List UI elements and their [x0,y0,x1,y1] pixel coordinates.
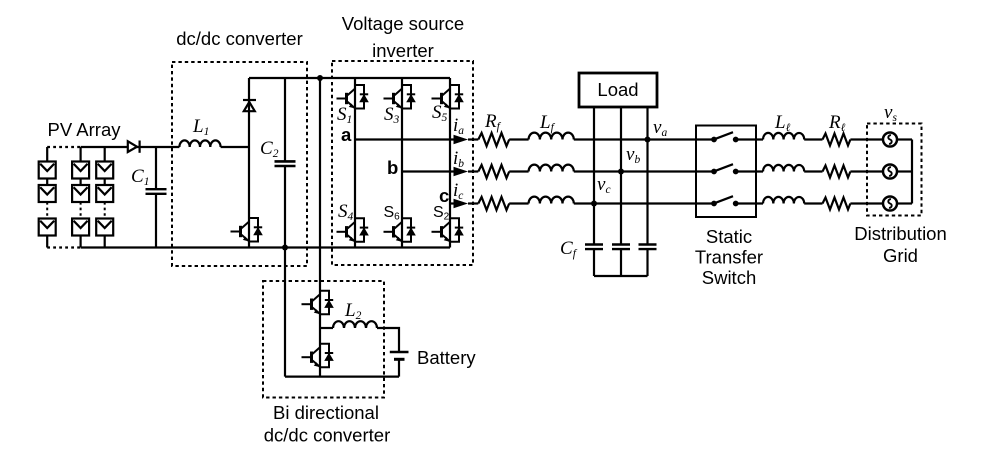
wire PV top bus dashed segment [47,146,80,148]
svg-text:dc/dc converter: dc/dc converter [264,425,390,446]
transistor S4 [337,218,369,242]
PV string column 1 [39,147,56,248]
wire inverter leg 3 [449,78,451,248]
node vc [591,201,597,207]
wire battery bottom return [285,376,399,378]
wire Lf to va node [574,138,714,140]
inductor Lf phase a [529,133,574,140]
current arrow ia [454,135,469,145]
wire load leg / Cf leg at vc [593,107,595,244]
wire diode to L1 [136,146,179,148]
resistor Rf phase c [478,197,509,210]
ac source phase b [883,165,897,179]
capacitor Cf phase c [585,245,603,277]
wire Cf common bottom [594,275,648,277]
svg-text:inverter: inverter [372,40,434,61]
node top bus junction [317,75,323,81]
battery B1 [390,352,409,377]
wire Rl to source c [850,202,883,204]
svg-text:Voltage source: Voltage source [342,13,464,34]
wire Rl to source b [850,170,883,172]
wire bottom dc bus [81,246,450,248]
capacitor Cf phase a [639,245,657,277]
inductor L1 [179,140,220,147]
inductor Lf phase b [529,165,574,172]
wire Ll to Rl phase b [804,170,822,172]
svg-text:Static: Static [706,226,752,247]
wire phase b to Rf [468,170,478,172]
transistor S2 [432,218,464,242]
inductor Ll phase a [763,133,804,140]
wire Rf to Lf phase c [509,202,528,204]
Static Transfer Switch box [696,126,756,218]
current arrow ic [454,199,469,209]
PV string column 2 [72,147,89,248]
wire midpoint to L2 [320,327,333,329]
inductor L2 [333,321,377,328]
dc/dc converter dashed box [172,62,307,266]
wire load leg / Cf leg at vb [620,107,622,244]
resistor Rl phase b [823,166,851,178]
svg-text:dc/dc converter: dc/dc converter [176,28,302,49]
wire Rf to Lf phase a [509,138,528,140]
wire Lf to vb node [574,170,714,172]
PV string column 3 [96,147,113,248]
capacitor C1 branch bottom wire [155,194,157,248]
svg-text:Load: Load [597,79,638,100]
wire battery leg from top bus junction [319,78,321,377]
inductor Ll phase c [763,197,804,204]
transistor Q1 (dc/dc IGBT) [231,218,263,242]
node bottom bus junction [282,245,288,251]
wire phase c from leg3 [450,202,457,204]
svg-text:PV Array: PV Array [48,119,122,140]
current arrow ib [454,167,469,177]
switch phase a [711,132,739,142]
resistor Rf phase a [478,133,509,146]
transistor S5 [432,85,464,109]
wire switch a to Ll [736,138,763,140]
wire switch c to Ll [736,202,763,204]
wire inverter leg 1 [354,78,356,248]
wire load leg / Cf leg at va [646,107,648,244]
svg-text:Switch: Switch [702,267,757,288]
inductor Lf phase c [529,197,574,204]
svg-text:a: a [341,124,352,145]
wire inverter leg 2 [401,78,403,248]
capacitor C2 [275,161,296,166]
wire phase a to Rf [468,138,478,140]
svg-text:b: b [387,157,398,178]
wire phase b from leg2 [402,170,457,172]
diode D2 (boost diode) [243,100,256,111]
wire phase a from leg1 [355,138,457,140]
wire grid right rail [911,140,913,204]
wire Rf to Lf phase b [509,170,528,172]
switch phase c [711,196,739,206]
resistor Rl phase c [823,198,851,210]
Bi directional dc/dc converter dashed box [263,281,384,398]
wire top dc bus [249,77,450,79]
node vb [618,169,624,175]
wire L1 to boost node [221,146,249,148]
wire from bottom bus junction down to battery return [284,248,286,377]
svg-text:Transfer: Transfer [695,247,763,268]
capacitor C2 branch top wire [284,78,286,161]
wire switch b to Ll [736,170,763,172]
svg-text:Battery: Battery [417,347,476,368]
wire Lf to vc node [574,202,714,204]
wire boost vertical branch [248,78,250,248]
wire phase c to Rf [468,202,478,204]
wire source c to right rail [897,202,912,204]
svg-text:Grid: Grid [883,245,918,266]
ac source phase c [883,197,897,211]
inductor Ll phase b [763,165,804,172]
capacitor C1 branch top wire [155,147,157,189]
wire PV top bus solid [81,146,128,148]
transistor S6 [384,218,416,242]
transistor S1 [337,85,369,109]
svg-text:Distribution: Distribution [854,223,947,244]
wire Rl to source a [850,138,883,140]
wire Ll to Rl phase a [804,138,822,140]
wire L2 to battery [377,328,399,351]
wire source a to right rail [897,138,912,140]
transistor Q2 (bidirectional top IGBT) [302,291,334,315]
svg-text:Bi directional: Bi directional [273,402,379,423]
resistor Rl phase a [823,134,851,146]
resistor Rf phase b [478,165,509,178]
capacitor Cf phase b [612,245,630,277]
wire source b to right rail [897,170,912,172]
node va [645,137,651,143]
wire PV bottom bus dashed segment [47,246,80,248]
transistor S3 [384,85,416,109]
ac source phase a [883,133,897,147]
svg-text:c: c [439,185,449,206]
diode D1 (PV blocking diode) [128,141,140,153]
capacitor C2 branch bottom wire [284,166,286,248]
wire Ll to Rl phase c [804,202,822,204]
switch phase b [711,164,739,174]
transistor Q3 (bidirectional bottom IGBT) [302,344,334,368]
Load box [579,73,657,107]
capacitor C1 [146,189,167,194]
Distribution Grid dashed box [867,124,922,216]
Voltage source inverter dashed box [332,61,473,265]
